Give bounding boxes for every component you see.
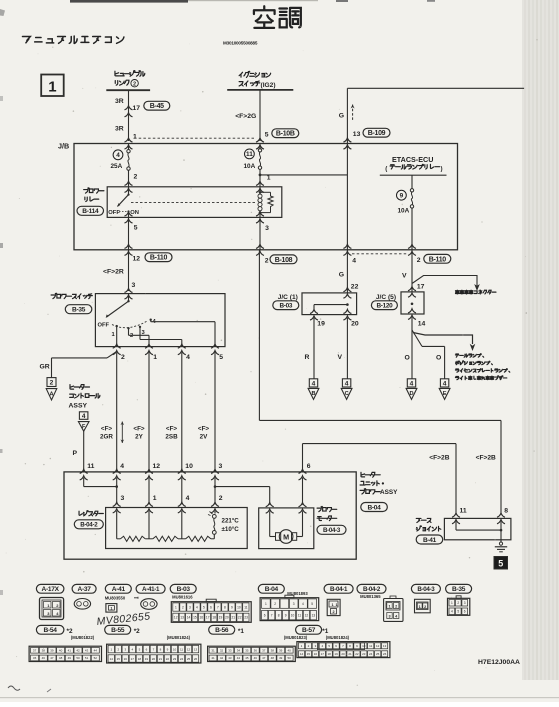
svg-text:45: 45 <box>33 656 37 660</box>
svg-text:2: 2 <box>274 602 276 606</box>
svg-text:2: 2 <box>50 380 54 387</box>
svg-text:B-04-1: B-04-1 <box>330 586 348 593</box>
svg-text:J/C (1): J/C (1) <box>278 294 298 301</box>
label spare connector <box>455 290 459 294</box>
svg-text:47: 47 <box>262 656 266 660</box>
svg-text:7: 7 <box>217 605 219 609</box>
svg-text:44: 44 <box>237 656 241 660</box>
svg-text:B-45: B-45 <box>150 103 164 110</box>
svg-text:<F>: <F> <box>166 426 178 433</box>
connector diagram B-35 <box>446 584 472 593</box>
svg-text:12: 12 <box>174 616 178 620</box>
svg-text:11: 11 <box>244 605 248 609</box>
svg-text:23: 23 <box>173 657 177 661</box>
svg-text:44: 44 <box>94 649 98 653</box>
svg-text:B-57: B-57 <box>302 627 316 634</box>
svg-text:16: 16 <box>124 657 128 661</box>
svg-text:V: V <box>402 273 407 280</box>
svg-text:OFF: OFF <box>108 210 120 216</box>
svg-text:15: 15 <box>307 652 311 656</box>
svg-text:42: 42 <box>220 656 224 660</box>
svg-text:D: D <box>409 391 413 397</box>
wire ignition <F>2G <box>259 90 261 141</box>
svg-text:51: 51 <box>85 656 89 660</box>
svg-text:P: P <box>73 450 78 457</box>
relay actuation dashed link <box>131 202 257 204</box>
svg-text:1: 1 <box>332 603 334 607</box>
switch internal routing <box>116 326 118 346</box>
svg-text:O: O <box>436 355 441 362</box>
svg-text:21: 21 <box>232 616 236 620</box>
connector diagram A-37 <box>72 584 96 593</box>
J/C(1) outputs 19 20 <box>310 309 318 313</box>
svg-text:J/C (5): J/C (5) <box>376 294 396 301</box>
svg-text:9: 9 <box>400 193 404 200</box>
svg-text:3: 3 <box>265 225 269 232</box>
svg-text:38: 38 <box>271 649 275 653</box>
svg-text:34: 34 <box>237 649 241 653</box>
svg-text:52: 52 <box>94 656 98 660</box>
svg-text:2GR: 2GR <box>100 434 113 441</box>
svg-text:A-37: A-37 <box>78 586 92 593</box>
svg-text:6: 6 <box>307 463 311 470</box>
svg-text:4: 4 <box>82 413 86 420</box>
connector diagram A-41 <box>105 584 131 593</box>
branch fuse11 to divider node <box>259 174 262 177</box>
svg-text:24: 24 <box>369 652 373 656</box>
svg-text:16: 16 <box>314 652 318 656</box>
svg-text:5: 5 <box>203 605 205 609</box>
svg-text:1: 1 <box>388 605 390 609</box>
svg-text:37: 37 <box>262 649 266 653</box>
svg-text:10A: 10A <box>398 208 410 215</box>
svg-text:OFF: OFF <box>98 323 110 329</box>
svg-text:46: 46 <box>42 656 46 660</box>
svg-text:21: 21 <box>348 652 352 656</box>
label heater control ASSY <box>70 385 74 390</box>
connector diagram B-56 <box>209 625 235 634</box>
svg-text:3: 3 <box>464 601 466 605</box>
svg-text:(IG2): (IG2) <box>261 82 276 89</box>
svg-text:50: 50 <box>288 656 292 660</box>
svg-text:3: 3 <box>189 605 191 609</box>
svg-text:11: 11 <box>369 644 372 648</box>
wire O branches <box>411 317 413 379</box>
svg-text:3: 3 <box>121 495 125 502</box>
svg-text:38: 38 <box>42 649 46 653</box>
svg-text:B-120: B-120 <box>376 303 393 310</box>
svg-text:(MU801824): (MU801824) <box>167 635 191 640</box>
svg-text:2: 2 <box>424 605 426 609</box>
relay blower relay B-114 box <box>84 188 90 193</box>
svg-text:33: 33 <box>228 649 232 653</box>
svg-text:41: 41 <box>211 656 215 660</box>
svg-text:3R: 3R <box>115 98 124 105</box>
svg-text:46: 46 <box>254 656 258 660</box>
svg-text:<F>: <F> <box>101 426 113 433</box>
wire heater pin6 to earth joint <box>302 444 304 472</box>
svg-text:E: E <box>443 391 447 397</box>
svg-text:17: 17 <box>417 284 425 291</box>
earth joint internal <box>455 522 457 531</box>
wire motor pin2 <box>302 478 304 505</box>
earth joint pins 11 8 <box>452 513 460 517</box>
svg-text:2: 2 <box>130 333 133 339</box>
svg-text:±10°C: ±10°C <box>222 526 240 533</box>
svg-text:1: 1 <box>451 601 453 605</box>
wire fusible link 3R <box>128 90 130 141</box>
ground symbol <box>500 540 502 543</box>
svg-text:221°C: 221°C <box>222 518 240 525</box>
wire P <box>83 431 85 472</box>
svg-text:19: 19 <box>145 657 149 661</box>
svg-text:5: 5 <box>134 225 138 232</box>
harness double arrow <box>121 422 123 444</box>
switch output pins 2 1 4 5 <box>113 344 121 348</box>
svg-text:4: 4 <box>345 380 349 387</box>
svg-text:4: 4 <box>352 258 356 265</box>
svg-text:<F>2B: <F>2B <box>476 454 496 461</box>
svg-text:1: 1 <box>133 134 137 141</box>
svg-text:25: 25 <box>376 652 380 656</box>
relay coil <box>259 187 261 193</box>
connector diagram B-57 <box>296 625 322 634</box>
svg-text:(MU801824): (MU801824) <box>326 635 350 640</box>
svg-text:<F>2B: <F>2B <box>429 454 449 461</box>
svg-text:18: 18 <box>138 657 142 661</box>
component fusible link (2) <box>115 71 119 76</box>
svg-text:11: 11 <box>460 508 467 515</box>
svg-text:B-110: B-110 <box>429 256 447 263</box>
switch blower switch B-35 <box>51 293 57 298</box>
motor blower motor B-04-3 <box>259 508 314 549</box>
svg-text:14: 14 <box>300 652 304 656</box>
svg-text:12: 12 <box>133 256 141 263</box>
branch spare connector arrow <box>412 276 477 287</box>
svg-text:A: A <box>49 391 53 397</box>
svg-text:14: 14 <box>110 657 114 661</box>
svg-text:B-03: B-03 <box>279 303 292 310</box>
connector diagram A-17X <box>36 584 64 593</box>
svg-text:41: 41 <box>68 649 72 653</box>
svg-text:B-04: B-04 <box>265 586 279 593</box>
svg-text:B-04-2: B-04-2 <box>80 522 98 529</box>
svg-text:B-04-3: B-04-3 <box>323 527 341 534</box>
svg-text:12: 12 <box>153 463 161 470</box>
svg-text:20: 20 <box>225 616 229 620</box>
svg-text:4: 4 <box>410 380 414 387</box>
svg-text:11: 11 <box>87 463 94 470</box>
dashed link pin1 to pin5 <box>134 137 256 139</box>
svg-text:G: G <box>339 113 344 120</box>
svg-text:B-35: B-35 <box>452 586 466 593</box>
svg-text:*2: *2 <box>134 628 140 635</box>
svg-text:11: 11 <box>298 613 302 617</box>
svg-text:2: 2 <box>121 354 125 361</box>
svg-text:B-41: B-41 <box>423 537 437 544</box>
svg-text:M3010005500885: M3010005500885 <box>223 41 258 46</box>
svg-text:<F>: <F> <box>133 426 145 433</box>
wire relay coil to earth joint <box>258 250 260 421</box>
switch position dots and arc <box>112 321 148 328</box>
svg-text:B-114: B-114 <box>82 208 99 215</box>
connector diagram B-55 <box>105 625 131 634</box>
svg-text:ASSY: ASSY <box>380 489 398 496</box>
svg-text:13: 13 <box>194 647 198 651</box>
svg-text:4: 4 <box>120 463 124 470</box>
component ignition switch (IG2) <box>239 72 242 77</box>
svg-text:18: 18 <box>328 652 332 656</box>
J/C(5) output 14 <box>408 309 416 313</box>
svg-text:1: 1 <box>267 175 271 182</box>
svg-text:5: 5 <box>457 610 459 614</box>
svg-text:5: 5 <box>265 132 269 139</box>
connector diagram B-03 <box>170 584 196 593</box>
connector 2 arrow A heater control <box>47 378 56 387</box>
svg-text:B-35: B-35 <box>72 307 86 314</box>
label tail lamp position lamp license lamp buzzer <box>455 354 458 357</box>
svg-text:39: 39 <box>279 649 283 653</box>
svg-text:19: 19 <box>334 652 338 656</box>
svg-text:9: 9 <box>231 605 233 609</box>
svg-text:R: R <box>305 354 310 361</box>
svg-text:14: 14 <box>187 616 191 620</box>
wire V to J/C(5) <box>411 250 413 292</box>
svg-text:B-03: B-03 <box>177 586 191 593</box>
svg-text:<F>2R: <F>2R <box>103 269 124 276</box>
connector diagram B-04-3 <box>411 584 440 593</box>
svg-text:19: 19 <box>219 616 223 620</box>
fuse 4 25A <box>125 138 133 142</box>
svg-text:26: 26 <box>194 657 198 661</box>
svg-text:*2: *2 <box>67 628 73 635</box>
svg-text:10A: 10A <box>244 163 256 170</box>
svg-text:6: 6 <box>464 610 466 614</box>
sheet number box 1 <box>41 75 64 97</box>
resistor pins 3 1 4 2 <box>113 502 121 506</box>
connector diagram B-04-2 <box>357 584 386 593</box>
svg-text:48: 48 <box>271 656 275 660</box>
svg-text:*1: *1 <box>322 628 328 635</box>
svg-text:4: 4 <box>451 610 453 614</box>
svg-text:B-55: B-55 <box>111 627 125 634</box>
subtitle マニュアルエアコン <box>22 36 30 42</box>
svg-text:1: 1 <box>265 602 267 606</box>
svg-text:3: 3 <box>219 463 223 470</box>
svg-text:B-10B: B-10B <box>276 131 295 138</box>
svg-text:4: 4 <box>116 152 120 159</box>
svg-text:2: 2 <box>395 605 397 609</box>
svg-text:2: 2 <box>417 257 421 264</box>
svg-text:1: 1 <box>110 606 112 610</box>
svg-text:H7E12J00AA: H7E12J00AA <box>478 659 520 666</box>
svg-text:1: 1 <box>153 495 157 502</box>
svg-text:M: M <box>283 532 289 541</box>
svg-text:49: 49 <box>279 656 283 660</box>
svg-text:25: 25 <box>187 657 191 661</box>
ETACS divider wire <box>346 144 348 250</box>
svg-text:4: 4 <box>312 380 316 387</box>
relay contact OFF/ON <box>128 187 130 194</box>
svg-text:13: 13 <box>383 644 387 648</box>
svg-text:17: 17 <box>131 657 135 661</box>
svg-text:7: 7 <box>271 613 273 617</box>
svg-text:32: 32 <box>220 649 224 653</box>
svg-text:11: 11 <box>180 647 183 651</box>
svg-text:5: 5 <box>219 354 223 361</box>
svg-text:B-56: B-56 <box>215 627 229 634</box>
svg-text:13: 13 <box>353 131 361 138</box>
svg-text:10: 10 <box>237 605 241 609</box>
svg-text:1: 1 <box>153 354 157 361</box>
svg-text:A-17X: A-17X <box>41 586 59 593</box>
svg-text:35: 35 <box>245 649 249 653</box>
svg-text:2: 2 <box>134 174 138 181</box>
connector diagram B-54 <box>36 625 64 634</box>
dashed link pin4 to pin2 <box>352 253 408 255</box>
svg-text:8: 8 <box>504 508 508 515</box>
svg-text:26: 26 <box>383 652 387 656</box>
svg-text:10: 10 <box>173 647 177 651</box>
svg-text:3: 3 <box>388 615 390 619</box>
svg-text:O: O <box>405 355 410 362</box>
svg-text:47: 47 <box>50 656 54 660</box>
svg-text:16: 16 <box>200 616 204 620</box>
svg-text:39: 39 <box>50 649 54 653</box>
svg-text:17: 17 <box>206 616 210 620</box>
svg-text:15: 15 <box>193 616 197 620</box>
svg-text:42: 42 <box>76 649 80 653</box>
svg-text:22: 22 <box>355 652 359 656</box>
svg-text:1: 1 <box>175 605 177 609</box>
relay output pin 5 wire <box>125 212 133 216</box>
ground number 5 black box <box>494 557 508 570</box>
resistor unit レジスター B-04-2 <box>79 511 82 515</box>
wire G from tail lamp circuit <box>347 87 524 89</box>
svg-text:V: V <box>338 354 343 361</box>
svg-text:MU801616: MU801616 <box>172 595 193 600</box>
fuse 11 10A <box>256 138 264 142</box>
svg-text:2V: 2V <box>200 434 209 441</box>
motor symbol <box>266 503 274 507</box>
wire R <box>313 318 315 379</box>
svg-text:(MU801822): (MU801822) <box>71 635 95 640</box>
switch common pivot <box>128 294 130 302</box>
svg-text:4: 4 <box>186 354 190 361</box>
svg-text:37: 37 <box>33 649 37 653</box>
branch high speed to motor <box>214 485 217 488</box>
svg-text:13: 13 <box>312 613 316 617</box>
svg-text:8: 8 <box>278 613 280 617</box>
svg-text:B-04: B-04 <box>367 504 381 511</box>
svg-text:14: 14 <box>418 321 426 328</box>
svg-text:40: 40 <box>288 649 292 653</box>
title 空調 <box>254 6 275 28</box>
svg-text:4: 4 <box>302 602 304 606</box>
svg-text:2: 2 <box>457 601 459 605</box>
svg-text:11: 11 <box>246 151 253 158</box>
connector diagram B-04-1 <box>324 584 353 593</box>
wire G to J/C(1) <box>346 250 348 293</box>
svg-text:): ) <box>441 166 443 173</box>
svg-text:45: 45 <box>245 656 249 660</box>
svg-text:18: 18 <box>212 616 216 620</box>
svg-text:B-54: B-54 <box>44 627 58 634</box>
wire GR to heater control <box>107 352 117 358</box>
svg-text:2: 2 <box>332 610 334 614</box>
svg-text:MU801365: MU801365 <box>360 594 381 599</box>
svg-text:A-41: A-41 <box>112 586 126 593</box>
svg-text:B-108: B-108 <box>275 257 293 264</box>
svg-text:12: 12 <box>187 647 191 651</box>
svg-text:MU803550: MU803550 <box>105 596 126 601</box>
svg-text:36: 36 <box>254 649 258 653</box>
connector 4 arrow F heater control <box>79 412 88 420</box>
svg-text:1: 1 <box>336 603 338 607</box>
svg-text:19: 19 <box>317 321 325 328</box>
heater internal wires <box>83 478 85 487</box>
J/B bottom exits <box>125 244 133 248</box>
svg-text:22: 22 <box>166 657 170 661</box>
svg-text:B-110: B-110 <box>150 255 168 262</box>
svg-text:3: 3 <box>293 602 295 606</box>
svg-text:20: 20 <box>152 657 156 661</box>
connector diagram A-41-1 <box>136 584 165 593</box>
svg-text:10: 10 <box>185 463 193 470</box>
wires switch to heater unit <box>116 353 118 472</box>
fuse 9 10A in ETACS <box>411 175 413 188</box>
svg-text:J/B: J/B <box>58 142 69 151</box>
svg-text:20: 20 <box>341 652 345 656</box>
connector 4 arrow E (wire O) <box>440 379 448 387</box>
svg-text:C: C <box>345 391 349 397</box>
svg-text:12: 12 <box>305 613 309 617</box>
svg-text:5: 5 <box>311 602 313 606</box>
svg-text:10: 10 <box>291 613 295 617</box>
svg-text:GR: GR <box>40 364 50 371</box>
svg-text:50: 50 <box>76 656 80 660</box>
wire V to lamp <box>346 318 348 379</box>
svg-text:24: 24 <box>180 657 184 661</box>
svg-text:1: 1 <box>419 605 421 609</box>
svg-text:(MU801823): (MU801823) <box>284 635 308 640</box>
svg-text:12: 12 <box>376 644 380 648</box>
svg-text:8: 8 <box>224 605 226 609</box>
svg-text:6: 6 <box>264 613 266 617</box>
svg-text:B: B <box>311 391 315 397</box>
svg-text:5: 5 <box>498 559 503 569</box>
svg-text:13: 13 <box>180 616 184 620</box>
svg-text:22: 22 <box>351 284 359 291</box>
svg-text:17: 17 <box>133 105 141 112</box>
relay coil output pin 3 wire <box>256 212 264 216</box>
resistor elements <box>116 511 118 539</box>
svg-text:B-109: B-109 <box>368 130 386 137</box>
svg-text:4: 4 <box>186 495 190 502</box>
svg-text:3R: 3R <box>115 126 124 133</box>
svg-text:23: 23 <box>362 652 366 656</box>
earth joint B-41 <box>416 518 421 522</box>
svg-text:17: 17 <box>321 652 325 656</box>
svg-text:3: 3 <box>132 282 136 289</box>
svg-text:2Y: 2Y <box>135 434 144 441</box>
svg-text:40: 40 <box>59 649 63 653</box>
svg-text:48: 48 <box>59 656 63 660</box>
svg-text:G: G <box>339 272 344 279</box>
svg-text:49: 49 <box>68 656 72 660</box>
svg-text:2: 2 <box>265 258 269 265</box>
connector 4 arrow C (wire V) <box>342 379 350 387</box>
